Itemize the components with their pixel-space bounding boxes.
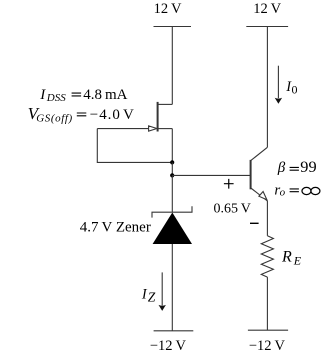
wire: zener anode to left negative rail (171, 244, 173, 331)
JFET Q1 (158, 102, 173, 132)
svg-text:IDSS4.8 mA: IDSS4.8 mA (39, 87, 127, 104)
current arrow I_0 (275, 66, 282, 104)
wire: left rail to JFET drain (171, 27, 173, 105)
svg-text:ro: ro (274, 182, 285, 198)
label + (V_BE plus) (224, 179, 234, 189)
wire: emitter to resistor (266, 201, 268, 236)
svg-text:−12 V: −12 V (249, 338, 286, 354)
svg-text:99: 99 (300, 159, 316, 176)
svg-text:RE: RE (281, 249, 302, 268)
wire: base connection to BJT (172, 174, 250, 176)
node A (gate-source junction) (170, 160, 174, 164)
svg-text:β: β (277, 160, 286, 176)
svg-text:4.7 V Zener: 4.7 V Zener (80, 219, 151, 235)
svg-text:I0: I0 (285, 79, 297, 97)
svg-text:0.65 V: 0.65 V (214, 201, 251, 216)
label - (V_BE minus) (250, 222, 259, 224)
wire: gate feedback loop (97, 129, 172, 163)
node B (base junction) (170, 173, 174, 177)
svg-text:IZ: IZ (141, 287, 156, 305)
svg-text:−12 V: −12 V (150, 338, 187, 354)
left -12V rail (154, 330, 194, 332)
wire: source down to node A (171, 129, 173, 163)
wire: right rail to BJT collector (266, 27, 268, 148)
resistor R_E (261, 236, 273, 277)
wire: gate lead (97, 128, 148, 130)
svg-text:12 V: 12 V (253, 1, 281, 17)
zener diode D1 (4.7 V) (152, 206, 192, 244)
left +12V supply rail (154, 26, 192, 28)
wire: node B down to zener cathode (171, 175, 173, 212)
current arrow I_Z (159, 272, 166, 311)
JFET gate arrow (149, 126, 157, 131)
right +12V supply rail (246, 26, 288, 28)
BJT Q2 (251, 147, 268, 201)
svg-text:VGS(off)−4.0 V: VGS(off)−4.0 V (28, 104, 135, 124)
wire: resistor to right negative rail (266, 277, 268, 330)
svg-text:12 V: 12 V (154, 1, 182, 17)
right -12V rail (248, 329, 288, 331)
wire: node A to node B (171, 162, 173, 175)
BJT emitter arrowhead (259, 192, 267, 200)
